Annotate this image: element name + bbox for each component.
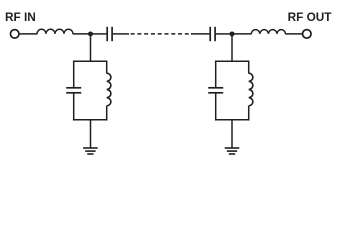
wire (dashed section) [131, 33, 189, 35]
wire [216, 33, 231, 35]
inductor L1 [37, 29, 73, 34]
wire [73, 119, 108, 121]
wire [248, 61, 250, 73]
wire [73, 61, 75, 87]
ground [225, 148, 240, 154]
wire [191, 33, 210, 35]
wire [92, 33, 106, 35]
wire [285, 33, 302, 35]
inductor L2 [251, 30, 285, 34]
svg-text:RF IN: RF IN [5, 10, 36, 24]
wire [231, 120, 233, 148]
wire [106, 106, 108, 121]
terminal RF IN [10, 30, 19, 39]
wire [215, 94, 217, 121]
terminal RF OUT [303, 30, 312, 39]
capacitor C4 [208, 88, 223, 93]
junction node 1 [88, 31, 93, 36]
wire [234, 33, 252, 35]
ground [83, 148, 98, 154]
wire [90, 34, 92, 61]
wire [231, 34, 233, 61]
capacitor C2 [210, 27, 215, 41]
wire [73, 60, 108, 62]
wire [215, 119, 250, 121]
wire [73, 33, 89, 35]
inductor L4 [249, 73, 253, 106]
inductor L3 [107, 73, 111, 106]
wire [215, 61, 217, 87]
wire [215, 60, 250, 62]
capacitor C3 [66, 88, 81, 93]
wire [106, 61, 108, 73]
wire [73, 94, 75, 121]
junction node 2 [230, 31, 235, 36]
wire [248, 106, 250, 121]
wire [113, 33, 129, 35]
wire [19, 33, 37, 35]
wire [90, 120, 92, 148]
svg-text:RF OUT: RF OUT [288, 10, 333, 24]
capacitor C1 [107, 27, 112, 41]
